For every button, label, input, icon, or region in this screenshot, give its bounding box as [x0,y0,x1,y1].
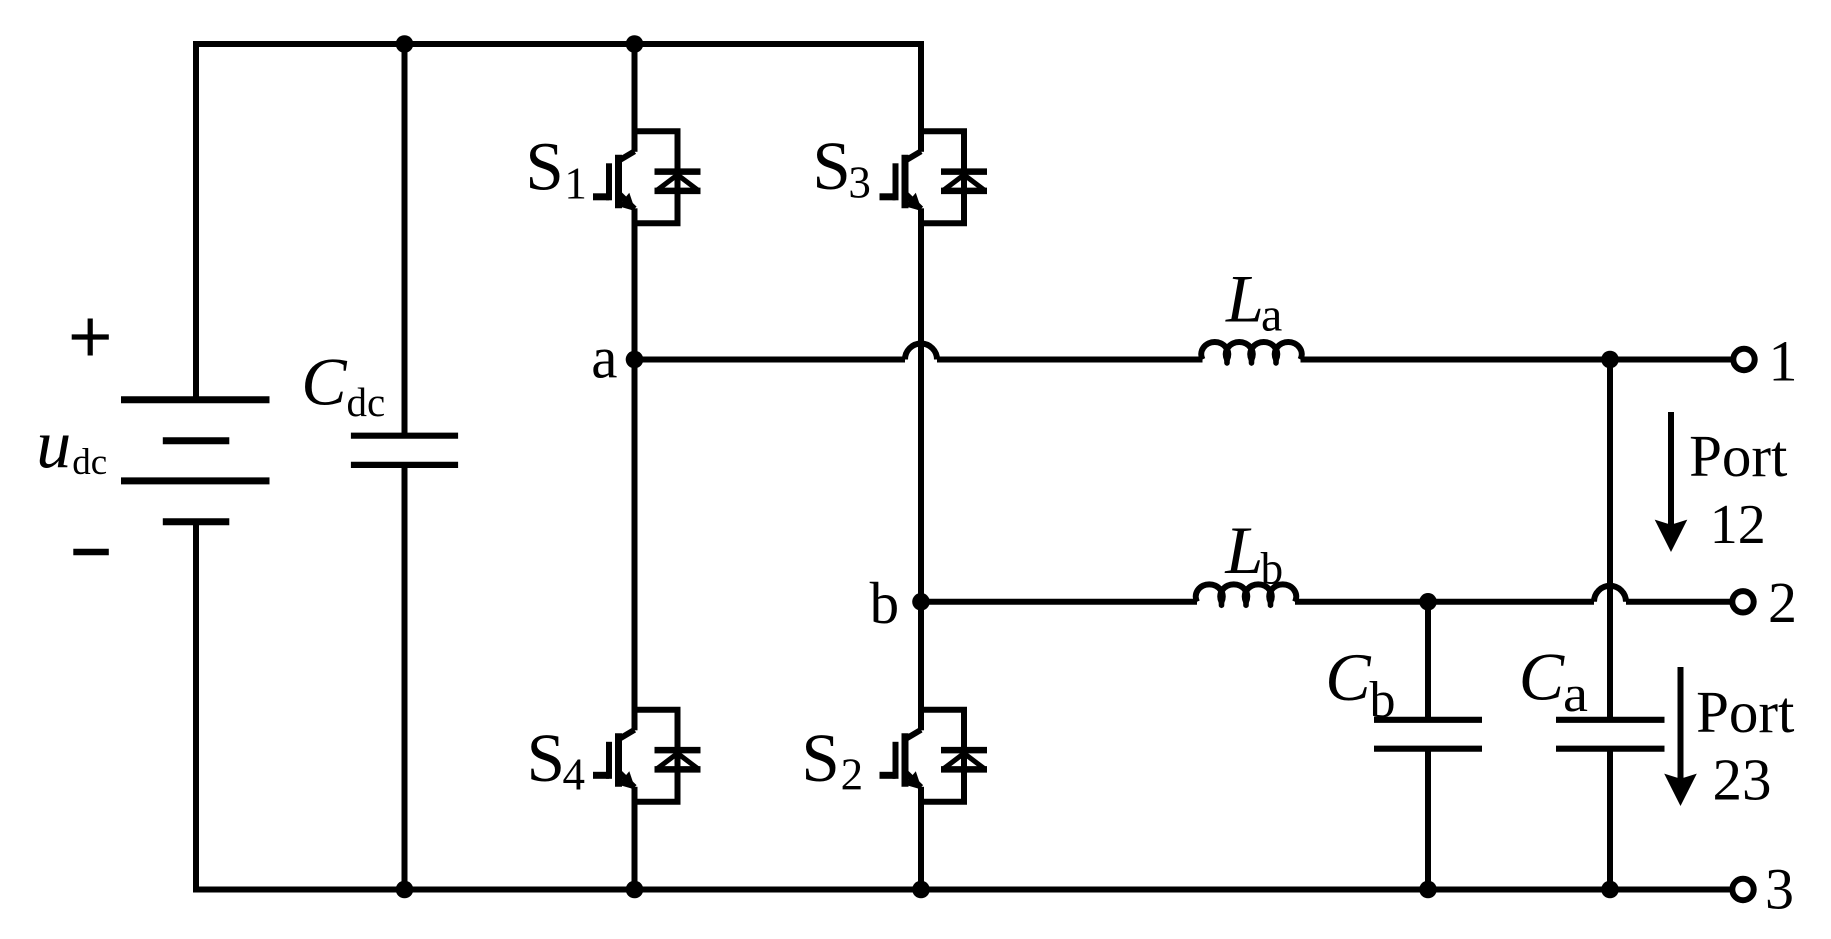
svg-text:C: C [1325,639,1371,715]
svg-text:S: S [525,129,563,205]
arrow Port 23 [1678,667,1684,782]
wire hop to inductor La [937,357,1203,363]
wire top rail from battery to S3 leg [196,44,921,400]
inductor Lb [1196,584,1297,601]
capacitor Cb bottom lead [1425,749,1431,890]
junction bottom rail / Ca leg [1601,881,1619,899]
junction bottom rail / S4 leg [626,881,644,899]
wire hop over Ca leg [1594,586,1626,602]
terminal 3 [1732,879,1753,900]
capacitor Ca [1556,720,1665,749]
inductor La [1201,342,1302,359]
svg-text:23: 23 [1713,747,1772,813]
junction bottom rail / S2 leg [912,881,930,899]
svg-text:1: 1 [564,158,587,208]
svg-text:b: b [1370,672,1396,729]
label minus [73,549,109,556]
svg-text:Port: Port [1696,679,1795,745]
junction bottom rail / Cdc [396,881,414,899]
svg-text:2: 2 [841,749,864,799]
wire S4 emitter to bottom rail [632,801,638,890]
svg-text:3: 3 [1765,857,1794,922]
svg-text:b: b [1261,543,1284,593]
svg-text:a: a [591,325,617,391]
wire Lb to Cb junction and hop start [1295,599,1594,605]
svg-text:S: S [801,720,839,796]
wire S2 emitter to bottom rail [918,801,924,890]
svg-text:2: 2 [1768,570,1797,635]
svg-text:dc: dc [347,379,386,425]
wire node a to La with hop over S3 leg [635,357,906,363]
svg-text:S: S [812,128,850,204]
wire S3 emitter to node b to S2 collector [918,222,924,711]
node a [626,351,644,369]
junction bottom rail / Cb leg [1419,881,1437,899]
junction b-wire / Cb leg [1419,593,1437,611]
transistor S3 (IGBT with antiparallel diode) [880,129,988,225]
terminal 1 [1733,349,1754,370]
wire hop over S3 leg [905,344,937,360]
svg-text:L: L [1224,512,1263,588]
svg-text:4: 4 [563,749,586,799]
capacitor Cdc bottom lead [402,465,408,890]
svg-text:3: 3 [848,158,871,208]
junction top rail / S1 leg [626,35,644,53]
junction top rail / Cdc [396,35,414,53]
transistor S1 (IGBT with antiparallel diode) [593,129,701,225]
arrow Port 12 [1668,412,1674,528]
capacitor Ca top lead from a-wire junction [1607,360,1613,720]
svg-text:a: a [1261,289,1282,342]
svg-text:C: C [301,344,347,420]
battery udc [121,400,270,522]
svg-text:S: S [527,720,565,796]
svg-text:12: 12 [1710,494,1766,556]
terminal 2 [1732,591,1753,612]
transistor S2 (IGBT with antiparallel diode) [880,708,988,804]
junction a-wire / Ca leg [1601,351,1619,369]
svg-text:a: a [1563,666,1588,723]
wire hop to terminal 2 [1626,599,1733,605]
svg-text:u: u [36,406,71,482]
wire S1 emitter to node a to S4 collector [632,222,638,711]
capacitor Cb [1374,720,1482,749]
capacitor Cb top lead [1425,602,1431,720]
label plus [72,319,109,356]
svg-text:1: 1 [1769,328,1798,393]
wire S1 leg top [632,44,638,133]
capacitor Cdc [351,436,458,465]
svg-text:b: b [870,570,900,636]
wire battery negative to bottom rail to terminal 3 [196,522,1730,890]
svg-text:L: L [1225,260,1264,336]
node b [912,593,930,611]
capacitor Cdc top lead [402,44,408,436]
wire node b to inductor Lb [921,599,1197,605]
transistor S4 (IGBT with antiparallel diode) [593,708,701,804]
svg-text:C: C [1519,639,1565,715]
svg-text:dc: dc [72,442,107,483]
wire La to terminal 1 [1301,357,1734,363]
capacitor Ca bottom lead [1607,749,1613,890]
svg-text:Port: Port [1689,423,1788,489]
